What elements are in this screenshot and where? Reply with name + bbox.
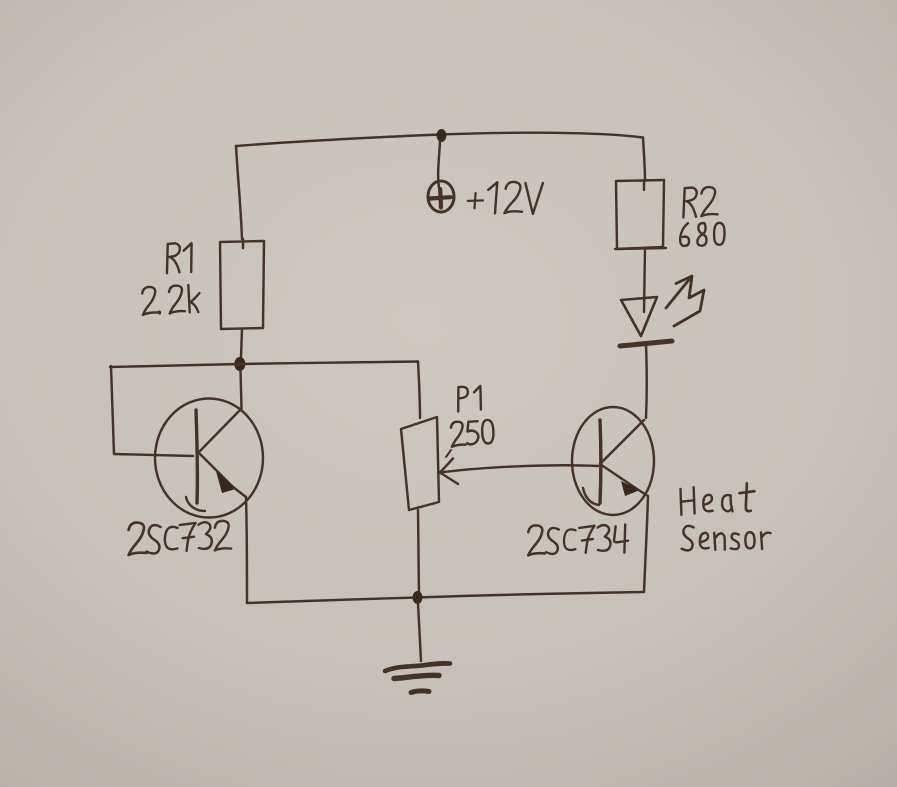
potentiometer P1 (401, 417, 439, 510)
wire top rail (236, 133, 643, 146)
label Heat (680, 483, 755, 515)
label 2.2K value (141, 284, 200, 315)
node mid junction (234, 357, 245, 371)
transistor Q2 2SC734 (572, 407, 654, 515)
wire wiper arrow from Q2 base (440, 450, 598, 484)
label R2 (683, 187, 718, 218)
LED light arrows (666, 276, 704, 326)
label P1 (457, 385, 483, 411)
wire left branch vertical (111, 366, 114, 454)
wire R1 bottom lead (241, 329, 242, 358)
wire Q1 emitter down (246, 497, 247, 603)
wire left drop to R1 (236, 146, 242, 239)
wire Q1 collector up to mid junction (241, 370, 242, 409)
node top junction (437, 129, 447, 142)
label R1 (166, 243, 193, 274)
wire LED to Q2 (645, 344, 648, 418)
wire R2 bottom lead (644, 248, 645, 312)
label Sensor (681, 524, 771, 550)
wire Q2 emitter down (644, 496, 648, 592)
label 680 value (680, 223, 725, 246)
wire ground stem (418, 603, 421, 661)
label 2SC732 (128, 521, 231, 555)
wire bottom rail (247, 592, 643, 603)
node bottom junction (413, 591, 423, 604)
wire junction to +12V symbol (438, 141, 440, 188)
wire left branch horizontal to base (114, 454, 193, 456)
resistor R1 (220, 239, 264, 329)
wire R2 top lead (643, 138, 645, 182)
LED D1 (620, 297, 672, 346)
ground (385, 663, 450, 692)
power +12V symbol (428, 181, 454, 212)
wire mid rail (110, 362, 418, 368)
label +12V (467, 181, 543, 215)
label 2SC734 (528, 524, 629, 556)
label 250 value (450, 419, 494, 447)
wire P1 bottom lead (418, 510, 419, 598)
wire mid rail corner down to P1 (418, 362, 420, 419)
resistor R2 (615, 180, 666, 249)
transistor Q1 2SC732 (155, 399, 263, 518)
